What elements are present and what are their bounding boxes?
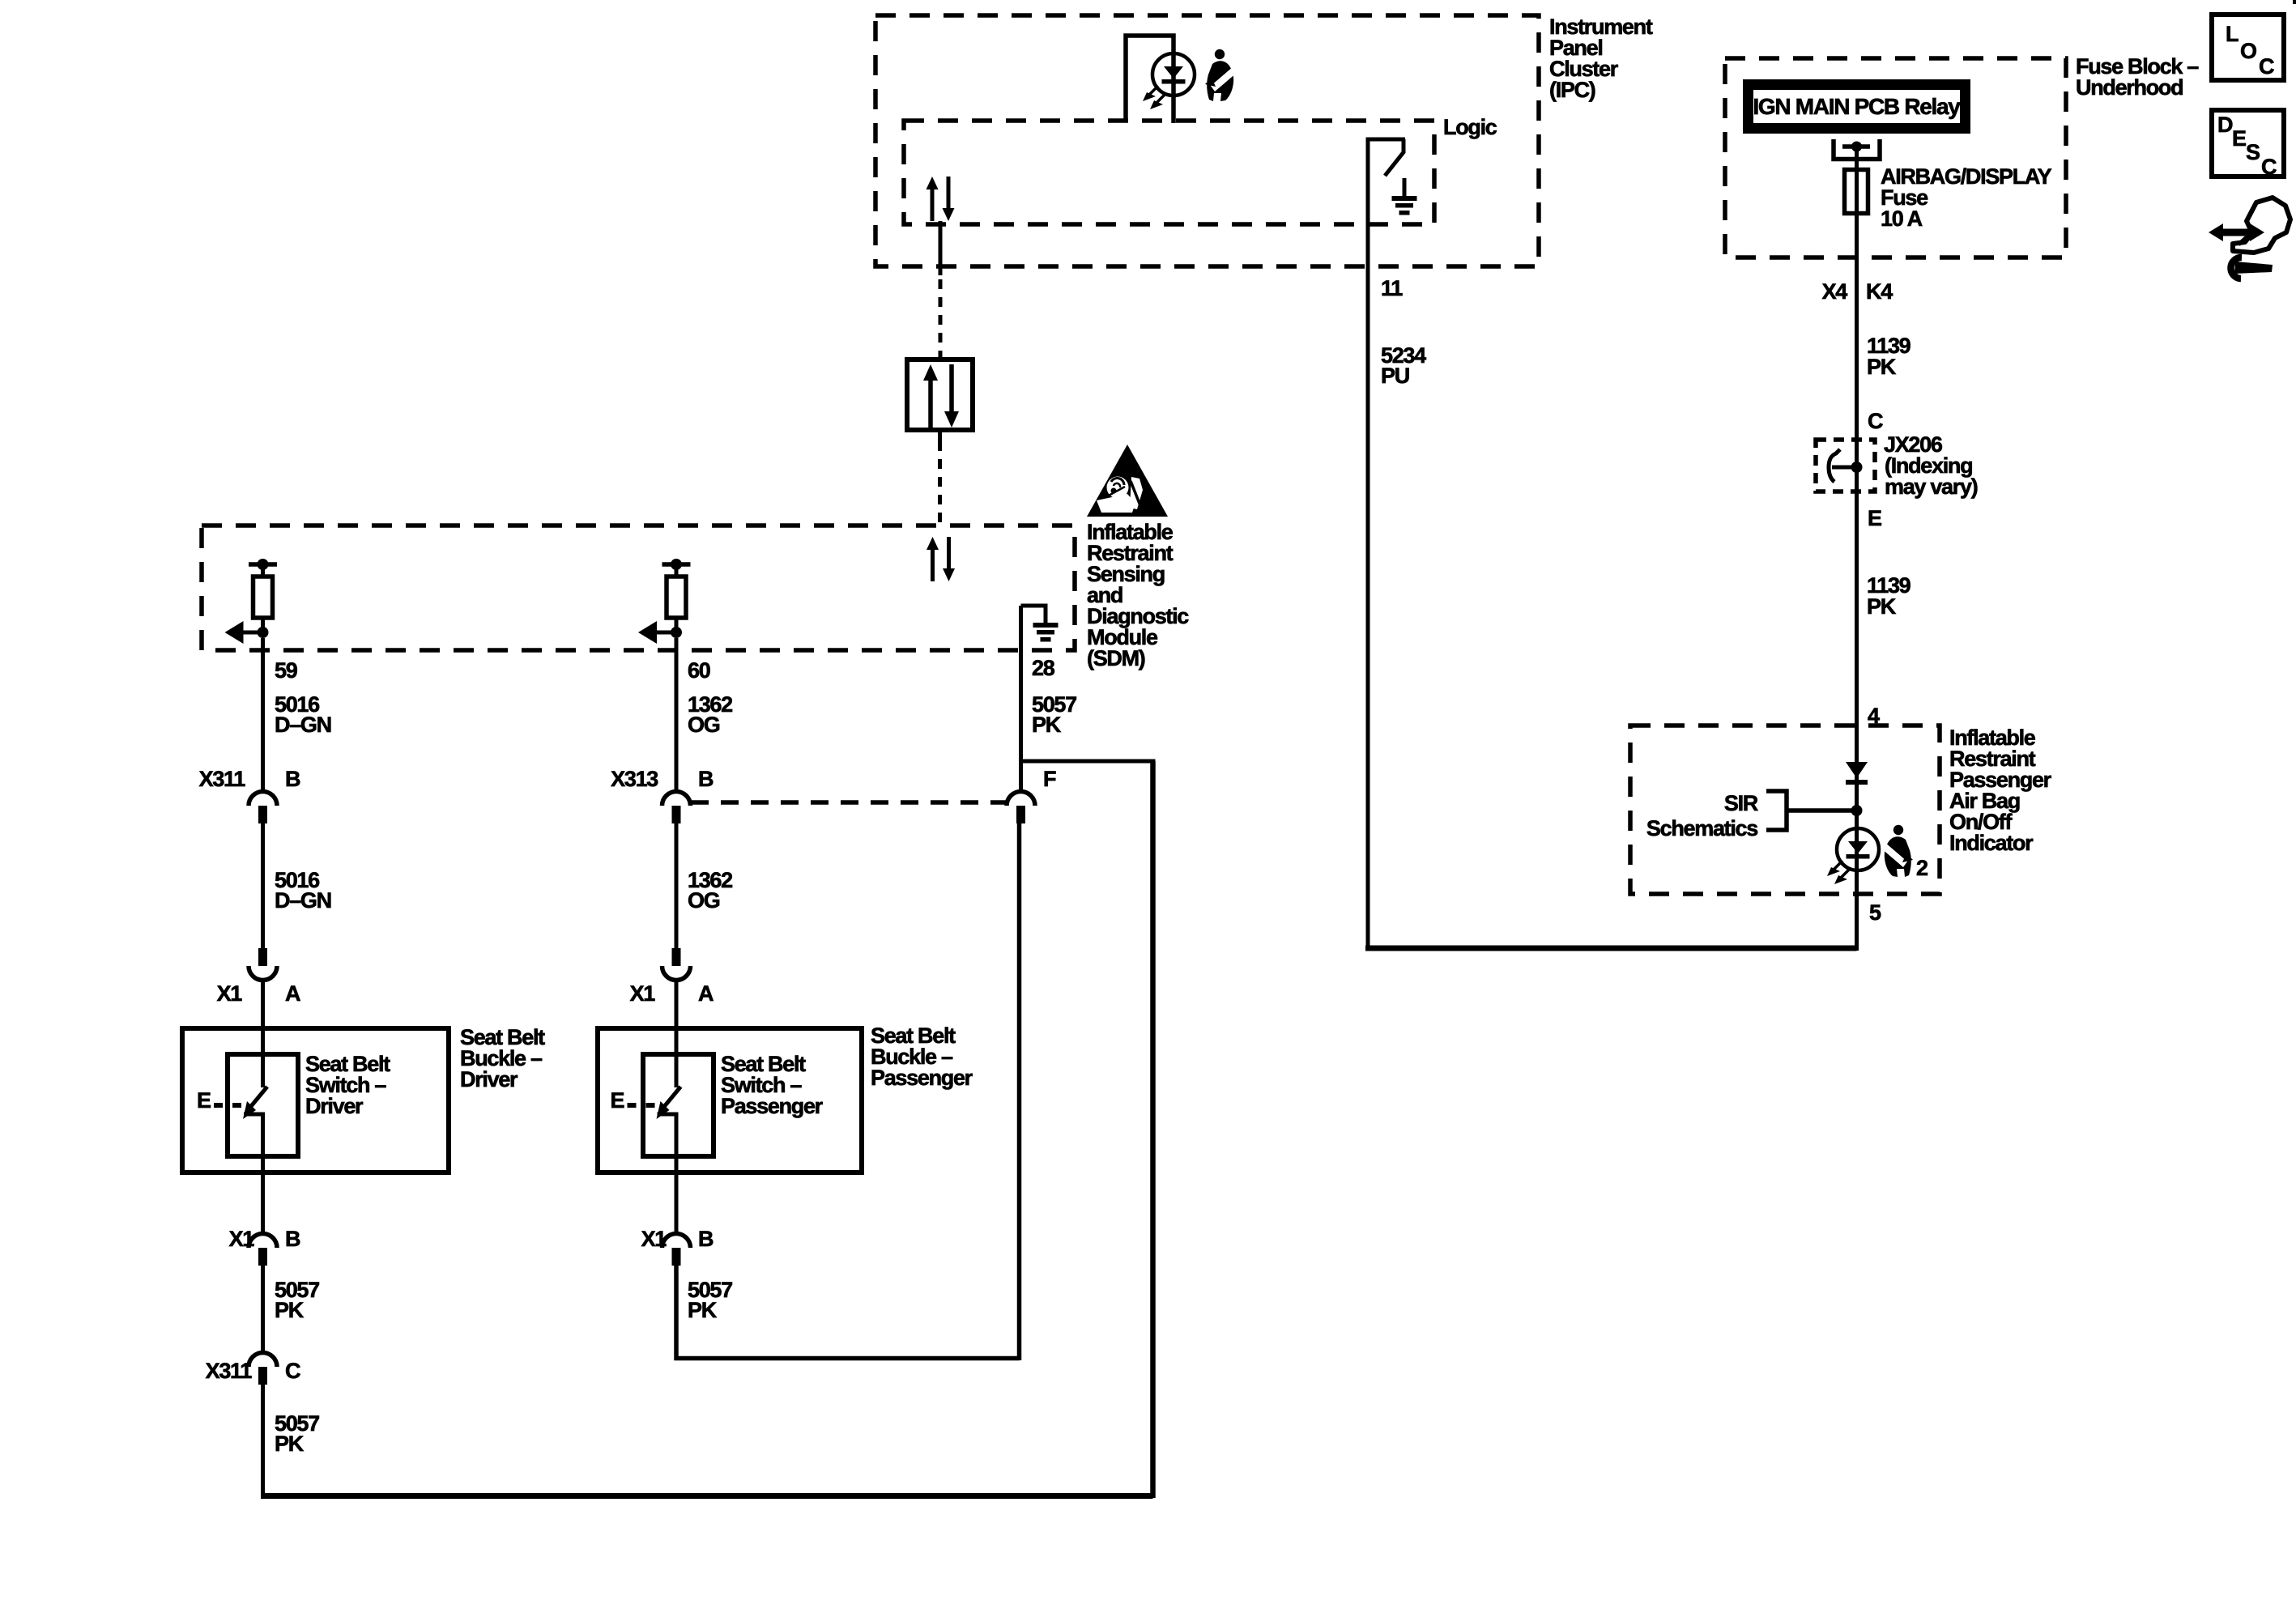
svg-text:L: L (2226, 22, 2238, 46)
ground (SDM) (1021, 606, 1059, 642)
LED E2 passenger air bag on/off indicator lamp (1827, 828, 1879, 884)
connector X1 pin A (driver buckle) (249, 948, 277, 981)
label JX206 (Indexing may vary) (1884, 432, 1978, 499)
svg-text:PK: PK (688, 1298, 718, 1322)
label Inflatable Restraint Sensing and Diagnostic Module (SDM) (1087, 520, 1189, 670)
node E actuation (driver switch) (197, 1088, 241, 1113)
svg-text:D–GN: D–GN (275, 888, 331, 913)
value label 1139 PK (1867, 334, 1911, 379)
svg-text:IGN MAIN PCB Relay: IGN MAIN PCB Relay (1753, 94, 1961, 119)
wire X313 B to X1 A passenger, net 1362 OG (675, 823, 679, 955)
switch S2 seat belt switch passenger (657, 1028, 681, 1172)
wire driver return riser, net 5057 PK (1150, 761, 1156, 1498)
svg-text:Driver: Driver (305, 1094, 364, 1118)
label SIR Schematics (1646, 791, 1758, 840)
connector F (1007, 792, 1035, 824)
wire X1 A into buckle box (261, 982, 265, 1028)
svg-text:PK: PK (1032, 713, 1062, 737)
wire branch to indicator LED inside IPC (1126, 36, 1174, 123)
wire SDM pin 28 to connector F, net 5057 PK (1019, 606, 1023, 789)
wire switch to X1 B (driver) (261, 1172, 265, 1232)
value label 1139 PK (1867, 573, 1911, 619)
svg-text:Schematics: Schematics (1646, 816, 1757, 840)
connector X1 pin B (driver buckle) (249, 1234, 277, 1266)
wire X311 B to X1 A, net 5016 D-GN (261, 823, 265, 955)
value label 5234 PU (1381, 343, 1426, 388)
connector X311 pin C (249, 1353, 277, 1385)
wire serial data stub through IPC edge (939, 221, 943, 275)
value label 1362 OG (688, 692, 732, 737)
svg-text:Indicator: Indicator (1949, 831, 2034, 855)
svg-text:B: B (698, 767, 714, 791)
svg-text:OG: OG (688, 713, 720, 737)
svg-text:28: 28 (1032, 656, 1055, 680)
svg-text:O: O (2240, 39, 2256, 63)
svg-text:59: 59 (275, 658, 298, 683)
svg-text:D: D (2217, 113, 2233, 137)
wire relay output down right branch, net 1139 PK (1855, 147, 1859, 951)
svg-text:S: S (2246, 140, 2260, 164)
box Inflatable Restraint Sensing and Diagnostic Module (SDM), dashed (202, 526, 1075, 650)
box Seat Belt Switch - Driver (228, 1054, 298, 1156)
label Seat Belt Switch - Driver (305, 1052, 390, 1118)
box Seat Belt Buckle - Passenger (598, 1028, 862, 1172)
value label 5057 PK (275, 1411, 319, 1456)
wire serial data stub below link box (938, 430, 942, 441)
value label 5016 D-GN (275, 868, 331, 913)
box Instrument Panel Cluster (IPC), dashed (875, 15, 1539, 266)
svg-text:(SDM): (SDM) (1087, 646, 1145, 670)
svg-text:PK: PK (275, 1298, 305, 1322)
value label 1362 OG (688, 868, 732, 913)
svg-text:X311: X311 (199, 767, 246, 791)
box LOC legend (2212, 15, 2284, 80)
icon seat belt reminder (IPC) (1205, 49, 1237, 101)
svg-text:X4: X4 (1822, 279, 1848, 304)
svg-text:X1: X1 (641, 1227, 667, 1251)
svg-text:E: E (197, 1088, 211, 1113)
svg-text:PK: PK (275, 1432, 305, 1456)
label Instrument Panel Cluster (IPC) (1549, 15, 1653, 102)
resistor R1 driver sense pull-up (SDM pin 59) (225, 559, 278, 644)
ground (Logic) (1392, 178, 1417, 215)
wire SDM pin 60 to X313 B, net 1362 OG (675, 638, 679, 789)
node SIR Schematics reference tap (1766, 791, 1863, 830)
svg-text:D–GN: D–GN (275, 713, 331, 737)
icon SIR warning triangle (1087, 445, 1168, 517)
page corner mark (2293, 0, 2296, 4)
wire SDM pin 59 to X311 B, net 5016 D-GN (261, 638, 265, 789)
wire serial data, dashed (939, 279, 943, 360)
svg-text:PK: PK (1867, 594, 1897, 619)
svg-text:PU: PU (1381, 364, 1409, 388)
switch Q1 driver output (Logic) (1368, 139, 1405, 224)
svg-text:60: 60 (688, 658, 710, 683)
connector X1 pin A (passenger buckle) (662, 948, 691, 981)
svg-text:OG: OG (688, 888, 720, 913)
serial data arrows (Logic) (926, 177, 955, 221)
svg-text:SIR: SIR (1724, 791, 1758, 815)
wire X311 C down, net 5057 PK (261, 1384, 265, 1499)
svg-text:X1: X1 (630, 981, 656, 1006)
icon seat belt reminder (indicator) (1881, 825, 1913, 877)
label AIRBAG/DISPLAY Fuse 10 A (1881, 164, 2052, 231)
svg-text:C: C (2261, 155, 2277, 179)
svg-text:E: E (1868, 506, 1881, 530)
svg-text:10 A: 10 A (1881, 206, 1923, 231)
svg-text:A: A (698, 981, 714, 1006)
connector X311 pin B (249, 792, 277, 824)
serial data arrows (SDM) (926, 537, 955, 581)
svg-text:Logic: Logic (1443, 115, 1497, 139)
label Seat Belt Buckle - Driver (460, 1025, 545, 1091)
svg-text:F: F (1043, 767, 1056, 791)
switch S1 seat belt switch driver (243, 1028, 267, 1172)
value label 5016 D-GN (275, 692, 331, 737)
serial data arrows (link box) (923, 364, 959, 428)
wire driver return bottom run, net 5057 PK (261, 1493, 1153, 1499)
label Seat Belt Switch - Passenger (721, 1052, 824, 1118)
label DESC (2217, 113, 2277, 179)
box Seat Belt Switch - Passenger (643, 1054, 714, 1156)
svg-text:E: E (2232, 126, 2246, 151)
svg-text:X1: X1 (217, 981, 243, 1006)
connector X1 pin B (passenger buckle) (662, 1234, 691, 1266)
box Inflatable Restraint Passenger Air Bag On/Off Indicator, dashed (1630, 726, 1940, 894)
svg-text:X311: X311 (206, 1359, 253, 1383)
svg-text:C: C (285, 1359, 300, 1383)
value label 5057 PK (275, 1278, 319, 1322)
svg-text:B: B (698, 1227, 714, 1251)
node E actuation (passenger switch) (611, 1088, 655, 1113)
wire X1 B to X311 C, net 5057 PK (261, 1265, 265, 1351)
wire switch to X1 B (passenger) (675, 1172, 679, 1232)
wire X1 A into passenger buckle box (675, 982, 679, 1028)
wire passenger return loop to connector F, net 5057 PK (675, 823, 1020, 1360)
box Seat Belt Buckle - Driver (182, 1028, 449, 1172)
svg-text:A: A (285, 981, 300, 1006)
wire bottom run of net 5234 PU (1365, 946, 1857, 951)
svg-text:X1: X1 (229, 1227, 255, 1251)
label LOC (2226, 22, 2274, 79)
svg-text:Passenger: Passenger (721, 1094, 824, 1118)
wire harness tie X313 to F, dashed (691, 800, 1006, 805)
svg-text:Driver: Driver (460, 1067, 518, 1091)
svg-text:2: 2 (1916, 856, 1928, 880)
wire IPC pin 11 to indicator pin 5, net 5234 PU (1366, 224, 1370, 951)
serial data link box (907, 360, 973, 430)
relay K4 IGN MAIN PCB Relay title box (1749, 85, 1966, 129)
svg-text:(IPC): (IPC) (1549, 78, 1595, 102)
svg-text:5: 5 (1869, 900, 1881, 925)
wire serial data to SDM, dashed (938, 441, 942, 526)
connector JX206 in-line terminal (1829, 449, 1863, 482)
value label 5057 PK (688, 1278, 732, 1322)
svg-text:C: C (2259, 54, 2274, 79)
svg-text:Passenger: Passenger (871, 1066, 973, 1090)
icon service hand with arrow and wrench (2209, 198, 2290, 279)
connector JX206 dashed box (1816, 440, 1875, 491)
svg-text:E: E (611, 1088, 624, 1113)
box Logic (IPC internal), dashed (904, 121, 1434, 224)
connector X313 pin B (662, 792, 691, 824)
svg-text:K4: K4 (1866, 279, 1893, 304)
svg-text:Underhood: Underhood (2076, 75, 2183, 100)
box DESC legend (2212, 110, 2284, 177)
svg-text:B: B (285, 1227, 300, 1251)
label Fuse Block - Underhood (2076, 54, 2199, 100)
label Seat Belt Buckle - Passenger (871, 1023, 973, 1090)
svg-text:may vary): may vary) (1885, 474, 1978, 499)
diode D1 (indicator) (1846, 762, 1868, 785)
value label 5057 PK (1032, 692, 1076, 737)
box Fuse Block - Underhood, dashed (1725, 58, 2066, 257)
relay K4 contact symbol (1834, 139, 1880, 160)
svg-text:B: B (285, 767, 300, 791)
svg-text:X313: X313 (611, 767, 658, 791)
svg-text:11: 11 (1381, 276, 1403, 300)
resistor R2 passenger sense pull-up (SDM pin 60) (638, 559, 691, 644)
svg-text:PK: PK (1867, 355, 1897, 379)
LED E1 seat belt indicator lamp (IPC) (1143, 53, 1195, 109)
wire driver return top run to node at SDM pin 28 wire (1021, 760, 1156, 764)
label Inflatable Restraint Passenger Air Bag On/Off Indicator (1949, 726, 2052, 855)
svg-text:C: C (1868, 409, 1883, 433)
fuse F1 AIRBAG/DISPLAY 10 A (1845, 170, 1868, 214)
